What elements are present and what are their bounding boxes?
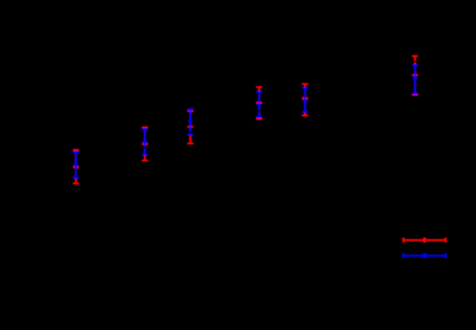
legend red entry xyxy=(402,238,447,243)
black marker gap 6 xyxy=(412,61,418,63)
red errorbar point 5 xyxy=(302,83,308,117)
red errorbar point 2 xyxy=(142,126,148,161)
blue errorbar point 4 xyxy=(256,91,262,118)
red errorbar point 6 xyxy=(412,55,418,96)
blue errorbar point 3 xyxy=(187,108,193,135)
black marker gap 2 xyxy=(142,147,148,149)
red errorbar point 4 xyxy=(256,86,262,120)
red errorbar point 1 xyxy=(73,149,79,185)
blue errorbar point 5 xyxy=(302,87,308,113)
black marker gap 5 xyxy=(302,95,308,97)
black marker gap 4 xyxy=(256,110,262,112)
red errorbar point 3 xyxy=(187,110,193,144)
black marker gap 3 xyxy=(187,132,193,134)
blue errorbar point 1 xyxy=(73,151,79,179)
legend blue entry xyxy=(402,253,447,258)
black marker gap 1 xyxy=(73,169,79,171)
blue errorbar point 6 xyxy=(412,64,418,94)
blue errorbar point 2 xyxy=(142,128,148,156)
